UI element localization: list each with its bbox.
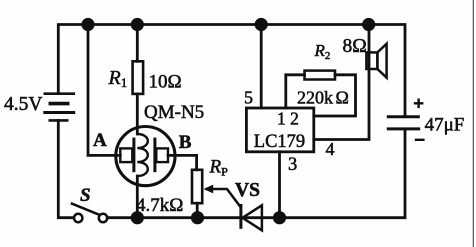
- wire RP bottom: [196, 203, 199, 218]
- svg-text:8Ω: 8Ω: [343, 36, 367, 57]
- switch S: [71, 203, 107, 222]
- svg-text:3: 3: [288, 155, 297, 175]
- potentiometer RP: [192, 170, 202, 203]
- wiper arrow to thyristor gate: [204, 185, 241, 208]
- node dot bottom RP: [191, 211, 204, 224]
- node dot top speaker: [362, 18, 375, 31]
- node dot bottom pin3: [273, 211, 286, 224]
- resistor R1: [133, 61, 144, 94]
- wire R1 top: [136, 25, 139, 62]
- thyristor VS: [241, 204, 262, 230]
- svg-text:S: S: [80, 185, 91, 206]
- wire IC pin 3: [278, 152, 281, 218]
- battery 4.5V: [43, 94, 75, 121]
- wire IC pin 1 from top rail: [260, 25, 263, 109]
- gas sensor QM-N5: [116, 127, 175, 186]
- svg-text:A: A: [93, 130, 107, 151]
- svg-text:R1: R1: [108, 67, 128, 90]
- wire top rail: [58, 25, 405, 117]
- svg-text:VS: VS: [235, 180, 260, 201]
- capacitor C1 47uF: [387, 99, 425, 140]
- scan artifact right border: [472, 0, 474, 247]
- wire bottom left from battery to switch: [58, 120, 74, 217]
- node dot bottom heater: [131, 211, 144, 224]
- svg-text:4: 4: [326, 139, 335, 159]
- wire B lead to potentiometer: [168, 155, 197, 169]
- svg-text:5: 5: [244, 87, 253, 107]
- resistor R2: [305, 71, 336, 80]
- svg-text:47μF: 47μF: [425, 114, 465, 135]
- svg-text:220kΩ: 220kΩ: [297, 87, 349, 107]
- svg-text:RP: RP: [209, 157, 229, 179]
- wire switch to bottom rail and bottom rail to capacitor: [107, 129, 405, 217]
- svg-text:4.5V: 4.5V: [4, 94, 42, 115]
- speaker LS 8 ohm: [366, 44, 386, 78]
- svg-text:1 2: 1 2: [277, 108, 299, 128]
- svg-text:LC179: LC179: [254, 132, 305, 152]
- node dot top pin1: [255, 18, 268, 31]
- IC U1 LC179: [246, 108, 313, 152]
- svg-text:10Ω: 10Ω: [149, 72, 182, 93]
- svg-text:B: B: [179, 132, 192, 153]
- wire R1 bottom to sensor heater top: [136, 94, 139, 134]
- wire R2 right loop to IC right edge: [314, 75, 356, 116]
- svg-text:4.7kΩ: 4.7kΩ: [136, 195, 183, 216]
- wire node A vertical and A lead: [88, 25, 120, 156]
- node dot top A: [81, 18, 94, 31]
- node dot top R1: [131, 18, 144, 31]
- wire sensor heater bottom to bottom rail: [136, 176, 139, 218]
- svg-text:R2: R2: [314, 41, 331, 62]
- wire IC pin 4 to speaker branch: [314, 25, 369, 140]
- wire R2 left to IC pin 2: [286, 75, 305, 108]
- svg-text:QM-N5: QM-N5: [144, 102, 204, 123]
